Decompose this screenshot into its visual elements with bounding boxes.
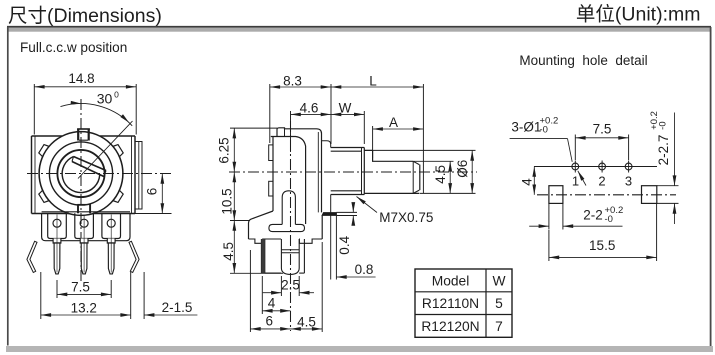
svg-text:3-Ø1: 3-Ø1 — [511, 120, 541, 135]
svg-text:2-2.7: 2-2.7 — [656, 135, 671, 166]
svg-text:1: 1 — [572, 174, 579, 189]
svg-text:7.5: 7.5 — [71, 280, 90, 295]
svg-text:Mounting hole detail: Mounting hole detail — [519, 53, 647, 68]
svg-text:单位(Unit):mm: 单位(Unit):mm — [576, 4, 701, 26]
svg-text:4.5: 4.5 — [433, 165, 448, 184]
svg-text:3: 3 — [625, 174, 632, 189]
svg-text:Model: Model — [432, 273, 470, 288]
svg-text:尺寸(Dimensions): 尺寸(Dimensions) — [8, 5, 162, 27]
svg-text:W: W — [492, 273, 505, 288]
svg-text:M7X0.75: M7X0.75 — [379, 210, 433, 225]
svg-text:0.8: 0.8 — [355, 262, 374, 277]
svg-text:R12120N: R12120N — [421, 319, 479, 334]
svg-text:30: 30 — [97, 90, 113, 106]
svg-text:0: 0 — [114, 90, 119, 100]
svg-text:-0: -0 — [658, 121, 669, 129]
svg-text:4.5: 4.5 — [221, 242, 236, 261]
svg-text:A: A — [389, 115, 398, 130]
svg-text:13.2: 13.2 — [71, 301, 97, 316]
svg-text:4.6: 4.6 — [300, 101, 319, 116]
svg-text:6: 6 — [145, 188, 160, 196]
svg-text:14.8: 14.8 — [68, 71, 94, 86]
svg-text:10.5: 10.5 — [220, 188, 235, 214]
svg-text:R12110N: R12110N — [422, 296, 479, 311]
svg-text:6.25: 6.25 — [217, 137, 232, 163]
svg-text:L: L — [369, 73, 377, 88]
svg-text:6: 6 — [265, 314, 273, 329]
svg-text:15.5: 15.5 — [589, 238, 615, 253]
svg-text:5: 5 — [495, 296, 503, 311]
svg-text:Full.c.c.w position: Full.c.c.w position — [20, 40, 127, 55]
svg-text:2.5: 2.5 — [281, 278, 300, 293]
svg-text:-0: -0 — [540, 125, 548, 136]
svg-text:2-1.5: 2-1.5 — [162, 300, 193, 315]
svg-text:Ø6: Ø6 — [455, 160, 470, 178]
svg-text:2: 2 — [598, 174, 605, 189]
svg-text:0.4: 0.4 — [337, 235, 352, 254]
svg-text:4.5: 4.5 — [297, 314, 316, 329]
svg-text:7.5: 7.5 — [593, 122, 612, 137]
svg-text:7: 7 — [495, 319, 503, 334]
svg-text:8.3: 8.3 — [283, 73, 302, 88]
svg-text:-0: -0 — [605, 214, 613, 225]
svg-text:W: W — [339, 101, 352, 116]
svg-text:4: 4 — [519, 178, 534, 186]
svg-text:4: 4 — [268, 296, 276, 311]
svg-text:2-2: 2-2 — [583, 208, 603, 223]
